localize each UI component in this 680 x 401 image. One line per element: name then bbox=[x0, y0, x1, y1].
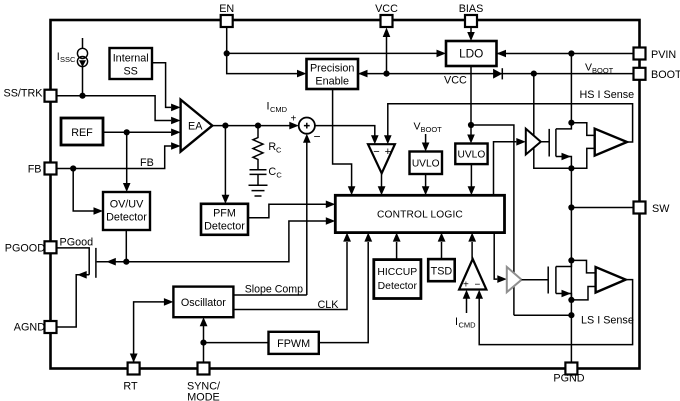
svg-text:LS I Sense: LS I Sense bbox=[581, 315, 634, 327]
svg-text:EN: EN bbox=[219, 3, 234, 15]
svg-text:SSC: SSC bbox=[60, 55, 76, 64]
svg-text:PVIN: PVIN bbox=[651, 49, 676, 61]
svg-text:CMD: CMD bbox=[270, 105, 288, 114]
svg-text:CLK: CLK bbox=[318, 299, 340, 311]
wire LS sense amp output feedback to LS comparator bbox=[475, 280, 632, 345]
svg-text:UVLO: UVLO bbox=[458, 150, 486, 161]
wire HS FET drain to sense amp input bbox=[571, 123, 594, 136]
wire TSD to control logic bbox=[438, 233, 446, 260]
wire VCC rail to VCC pin bbox=[383, 28, 391, 77]
svg-text:BIAS: BIAS bbox=[459, 3, 484, 15]
svg-text:+: + bbox=[463, 280, 469, 291]
op-amp EA error amplifier bbox=[181, 100, 213, 152]
svg-text:PGND: PGND bbox=[553, 373, 584, 385]
svg-text:BOOT: BOOT bbox=[421, 125, 443, 134]
svg-text:CMD: CMD bbox=[459, 321, 477, 330]
wire oscillator CLK output to control logic bbox=[233, 233, 351, 310]
wire HS source rail to sense amp input bbox=[571, 148, 594, 168]
pin PGOOD bbox=[45, 241, 57, 253]
wire LDO output down through VCC node to UVLO bbox=[467, 66, 475, 144]
svg-text:CONTROL LOGIC: CONTROL LOGIC bbox=[377, 210, 463, 221]
transistor LS power FET bbox=[522, 257, 575, 303]
transistor PGood open drain FET gate bar bbox=[95, 248, 97, 278]
box OV/UV Detector bbox=[103, 192, 150, 230]
svg-text:HICCUP: HICCUP bbox=[377, 267, 417, 278]
pin PVIN bbox=[634, 48, 646, 60]
wire EA output to summing junction bbox=[212, 122, 298, 130]
wire RT pin to oscillator bbox=[130, 298, 174, 362]
svg-text:BOOT: BOOT bbox=[592, 66, 614, 75]
wire EN node to LDO left input bbox=[227, 50, 446, 58]
pin SYNC/MODE bbox=[198, 363, 210, 375]
svg-text:Internal: Internal bbox=[113, 53, 149, 65]
net label ICMD at LS comparator bbox=[455, 316, 476, 330]
wire VCC node to LS driver supply and LS I sense bbox=[471, 125, 514, 315]
svg-text:C: C bbox=[276, 171, 282, 180]
svg-text:VCC: VCC bbox=[444, 75, 467, 87]
pin RT bbox=[128, 363, 140, 375]
box UVLO vcc bbox=[455, 144, 487, 165]
wire VCC rail from Precision Enable to BOOT pin bbox=[358, 70, 634, 78]
pin EN bbox=[221, 15, 233, 27]
svg-text:EA: EA bbox=[188, 121, 203, 133]
svg-text:+: + bbox=[385, 146, 391, 158]
svg-text:−: − bbox=[314, 130, 321, 144]
wire PWM comparator output to control logic bbox=[378, 173, 386, 195]
svg-text:FPWM: FPWM bbox=[277, 338, 310, 350]
svg-text:UVLO: UVLO bbox=[412, 159, 440, 170]
pin PGND bbox=[565, 363, 577, 375]
box Oscillator bbox=[173, 287, 233, 318]
svg-text:BOOT: BOOT bbox=[651, 69, 680, 81]
wire REF to EA input 3 bbox=[103, 129, 181, 137]
svg-text:FB: FB bbox=[140, 157, 154, 169]
diode VCC to BOOT bbox=[493, 68, 502, 79]
pin SS/TRK bbox=[45, 90, 57, 102]
wire VBOOT to UVLO1 bbox=[422, 134, 430, 152]
wire SW node bbox=[568, 168, 633, 260]
value label CC bbox=[268, 166, 282, 180]
wire LS FET drain to sense amp input bbox=[571, 260, 595, 273]
wire HS I Sense feedback to PWM comparator bbox=[384, 104, 633, 144]
gate driver HS bbox=[526, 129, 541, 155]
svg-text:SS/TRK: SS/TRK bbox=[4, 88, 44, 100]
wire EA node down to PFM detector bbox=[222, 126, 230, 204]
wire SYNC/MODE pin to oscillator bbox=[200, 317, 208, 362]
op-amp HS I sense amplifier bbox=[595, 129, 627, 156]
comparator PWM bbox=[368, 144, 395, 173]
gate driver LS grey bbox=[507, 267, 522, 292]
value label RC bbox=[268, 141, 282, 155]
wire SYNC node to FPWM bbox=[204, 342, 269, 344]
svg-text:C: C bbox=[268, 166, 276, 178]
pin BIAS bbox=[465, 15, 477, 27]
wire LS comparator output to control logic bbox=[468, 233, 476, 259]
wire FPWM output to control logic bbox=[319, 233, 372, 343]
net label VBOOT at boot line bbox=[585, 62, 614, 76]
compensation network Rc Cc to ground bbox=[249, 126, 268, 196]
wire UVLO1 output to control logic bbox=[422, 174, 430, 195]
wire Internal SS to EA input 1 bbox=[152, 63, 181, 111]
wire LS FET node down to PGND pin bbox=[568, 260, 574, 362]
svg-text:C: C bbox=[276, 146, 282, 155]
wire FB pin to EA input 4 bbox=[57, 142, 181, 171]
wire LS FET source to sense amp input bbox=[571, 287, 595, 300]
wire HICCUP detector to control logic bbox=[393, 233, 401, 260]
svg-text:Enable: Enable bbox=[315, 76, 349, 88]
svg-text:SW: SW bbox=[652, 203, 670, 215]
wire LS I Sense line bbox=[514, 314, 572, 316]
box PFM Detector bbox=[201, 204, 248, 235]
svg-text:V: V bbox=[414, 121, 421, 133]
svg-text:MODE: MODE bbox=[187, 392, 219, 401]
svg-text:AGND: AGND bbox=[14, 322, 45, 334]
wire BIAS pin to LDO top bbox=[467, 27, 475, 41]
box TSD bbox=[428, 259, 455, 281]
wire SS/TRK pin to EA input 2 bbox=[57, 93, 181, 125]
pin VCC bbox=[381, 15, 393, 27]
svg-text:Precision: Precision bbox=[310, 63, 354, 75]
wire slope comp riser to summing junction bbox=[303, 134, 311, 295]
wire PGOOD pin to PGood FET drain bbox=[57, 248, 90, 275]
svg-text:OV/UV: OV/UV bbox=[110, 199, 144, 211]
net label ICMD bbox=[267, 101, 288, 115]
wire OV/UV output to PGood gate and control logic bbox=[97, 217, 336, 265]
wire oscillator slope comp output bbox=[233, 294, 306, 296]
current source ISSC bbox=[77, 38, 87, 96]
box REF bbox=[61, 118, 103, 145]
svg-text:Detector: Detector bbox=[106, 212, 147, 224]
box CONTROL LOGIC bbox=[335, 195, 504, 232]
svg-text:+: + bbox=[291, 114, 297, 125]
svg-text:TSD: TSD bbox=[431, 266, 453, 278]
op-amp LS I sense amplifier bbox=[596, 267, 626, 293]
chip boundary border bbox=[51, 20, 640, 369]
transistor HS power FET bbox=[541, 120, 575, 172]
svg-text:RT: RT bbox=[123, 381, 138, 393]
svg-text:SS: SS bbox=[123, 66, 137, 78]
svg-text:FB: FB bbox=[28, 164, 42, 176]
pin label SYNC/MODE bbox=[187, 381, 220, 401]
box Internal SS bbox=[110, 48, 153, 79]
svg-text:PGood: PGood bbox=[60, 236, 94, 248]
pin SW bbox=[634, 202, 646, 214]
svg-text:LDO: LDO bbox=[459, 47, 483, 61]
svg-text:HS I Sense: HS I Sense bbox=[580, 89, 635, 101]
wire Precision Enable output to control logic bbox=[333, 89, 356, 195]
box HICCUP Detector bbox=[374, 260, 421, 299]
svg-text:Slope Comp: Slope Comp bbox=[245, 284, 303, 296]
wire control logic to HS driver bbox=[494, 138, 526, 195]
wire PVIN pin to LDO right input bbox=[497, 50, 634, 58]
wire ICMD to LS comparator plus input bbox=[463, 290, 471, 313]
svg-text:−: − bbox=[373, 146, 379, 158]
pin BOOT bbox=[634, 68, 646, 80]
svg-text:PFM: PFM bbox=[213, 208, 236, 220]
svg-text:V: V bbox=[585, 62, 592, 74]
wire AGND pin to PGood FET source bbox=[57, 271, 90, 327]
box Precision Enable bbox=[307, 59, 359, 89]
box LDO bbox=[446, 41, 497, 66]
wire BOOT node down to HS source rail bbox=[534, 74, 572, 169]
box UVLO vboot bbox=[410, 152, 443, 175]
svg-text:−: − bbox=[475, 280, 481, 291]
svg-text:PGOOD: PGOOD bbox=[5, 243, 45, 255]
wire PFM detector output to control logic bbox=[248, 201, 335, 218]
wire EN node to Precision Enable input bbox=[227, 53, 307, 77]
wire OV/UV detector bottom to node bbox=[125, 230, 127, 262]
wire UVLO2 output to control logic bbox=[468, 164, 476, 195]
svg-text:Detector: Detector bbox=[204, 221, 245, 233]
wire FB node to OV/UV detector left input bbox=[73, 169, 103, 215]
wire summing junction output to PWM comparator bbox=[315, 126, 379, 145]
wire EN pin drop to node bbox=[224, 27, 230, 57]
pin FB bbox=[45, 163, 57, 175]
net label VBOOT above UVLO bbox=[414, 121, 443, 135]
wire PVIN node down to HS FET drain bbox=[570, 54, 572, 123]
pin AGND bbox=[45, 321, 57, 333]
box FPWM bbox=[269, 332, 319, 354]
wire REF node down to OV/UV detector top bbox=[123, 132, 131, 192]
svg-text:Oscillator: Oscillator bbox=[181, 297, 226, 309]
net label ISSC bbox=[57, 51, 76, 64]
summing junction bbox=[291, 114, 321, 144]
wire control logic to LS driver bbox=[494, 233, 507, 283]
svg-text:Detector: Detector bbox=[378, 281, 418, 292]
svg-text:VCC: VCC bbox=[375, 3, 398, 15]
comparator LS current limit bbox=[459, 259, 486, 291]
svg-text:REF: REF bbox=[71, 127, 93, 139]
